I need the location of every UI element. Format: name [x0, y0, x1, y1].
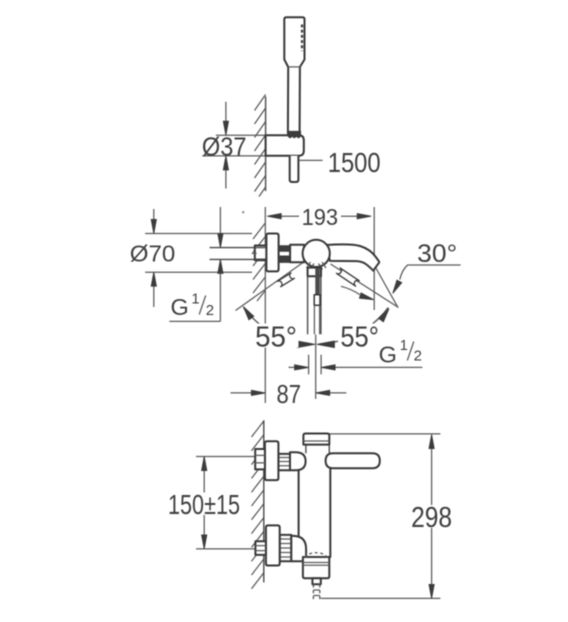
- svg-text:G: G: [171, 294, 189, 320]
- svg-text:150±15: 150±15: [168, 489, 240, 520]
- svg-text:1500: 1500: [328, 147, 381, 178]
- svg-text:87: 87: [277, 379, 302, 409]
- svg-text:2: 2: [414, 348, 422, 365]
- svg-text:Ø37: Ø37: [202, 133, 247, 161]
- svg-text:2: 2: [206, 302, 214, 319]
- svg-text:55°: 55°: [340, 322, 379, 354]
- svg-text:193: 193: [302, 204, 339, 230]
- svg-text:55°: 55°: [255, 322, 297, 354]
- svg-text:1: 1: [192, 292, 200, 308]
- svg-text:30°: 30°: [417, 240, 457, 268]
- svg-text:298: 298: [411, 502, 452, 534]
- svg-text:Ø70: Ø70: [130, 241, 176, 267]
- svg-text:G: G: [379, 342, 397, 368]
- svg-text:1: 1: [400, 338, 408, 354]
